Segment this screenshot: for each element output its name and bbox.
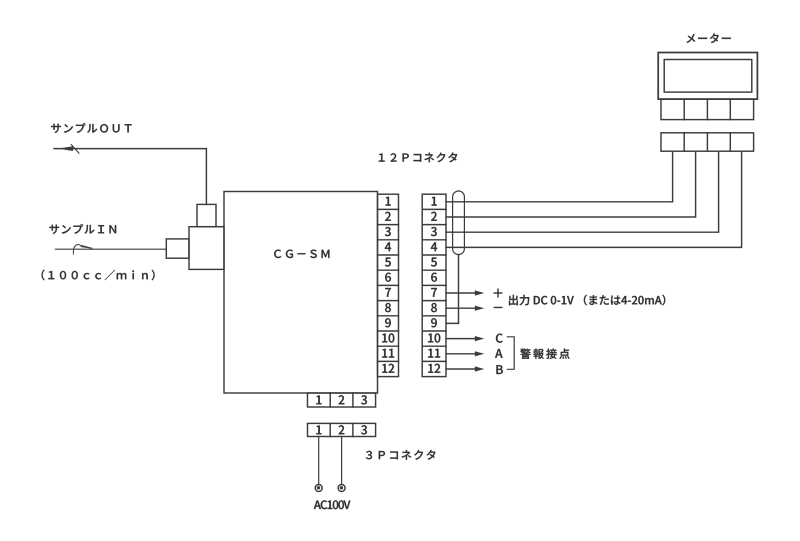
pipe sample OUT [54,149,206,205]
connector J1 pin column (CG-SM side) [378,194,399,376]
pin number J1-11 [382,349,394,358]
pin number J3-2 [339,395,345,404]
pin number J2-12 [428,364,440,373]
wire J2 pin 2 to meter [446,151,696,217]
pin number J2-3 [431,227,437,236]
pin number J1-8 [385,303,391,312]
pin number J2-9 [431,318,437,327]
label サンプルIN [49,224,116,234]
valve body [189,227,224,270]
pin number J1-12 [382,364,394,373]
wire J2 pin 9 to shield [446,255,459,324]
pin number J2-8 [431,303,437,312]
wire J2 pin 1 to meter [446,151,673,202]
connector J2 pin column (12P cable side) [422,194,446,376]
flow arrow OUT [58,145,79,154]
meter M1 body [658,53,757,100]
pin number J2-11 [428,349,440,358]
sample OUT fitting [197,204,216,226]
pipe sample IN [55,248,166,250]
pin number J2-10 [428,333,440,342]
wire J2 pin 3 to meter [446,151,719,232]
wire J2 pin 8 output − [446,306,484,311]
label メーター [687,33,731,43]
pin number J4-2 [339,425,345,434]
pin number J2-7 [431,288,437,297]
pin number J1-5 [385,258,391,267]
pin number J3-1 [316,395,321,404]
label C [496,334,503,343]
label (100cc/min) [42,270,155,281]
pin number J2-2 [431,212,437,221]
meter terminal block (plug side) [661,99,754,120]
connector J3 (CG-SM 3-pin) [308,393,376,407]
label 12Pコネクタ [379,153,458,163]
pin number J1-7 [385,288,391,297]
label + [494,289,503,298]
label − [494,306,503,309]
label 出力 DC 0-1V [509,295,665,306]
pin number J2-5 [431,258,437,267]
label CG-SM [274,250,329,258]
pin number J3-3 [361,395,367,404]
pin number J1-10 [382,333,394,342]
label AC100V [314,500,351,509]
label 警報接点 [520,349,569,359]
wire AC line 1 [318,437,320,485]
pin number J1-2 [385,212,391,221]
wire J2 pin 10 contact C [446,336,484,341]
wire J2 pin 4 to meter [446,151,742,247]
label サンプルOUT [51,123,131,133]
label A [495,349,502,358]
pin number J1-9 [385,318,391,327]
pin number J1-1 [386,197,391,206]
sample IN fitting [166,239,189,258]
terminal E1 [315,485,322,492]
flow arrow IN [73,244,92,254]
wire J2 pin 7 output + [446,290,484,295]
pin number J4-1 [316,425,321,434]
wire AC line 2 [341,437,343,485]
pin number J1-4 [385,242,391,251]
pin number J4-3 [361,425,367,434]
cable shield loop [453,191,465,255]
pin number J1-3 [385,227,391,236]
label 3Pコネクタ [366,450,435,460]
wire J2 pin 12 contact B [446,366,484,371]
CG-SM unit U1 [224,192,378,394]
label B [496,365,502,374]
pin number J1-6 [385,273,391,282]
meter terminal block (cable side) [661,133,754,151]
wire J2 pin 11 contact A [446,351,484,356]
pin number J2-4 [431,242,437,251]
bracket 警報接点 [507,337,514,370]
connector J4 (3P cable side) [308,423,376,436]
pin number J2-6 [431,273,437,282]
pin number J2-1 [432,197,437,206]
terminal E2 [338,485,345,492]
